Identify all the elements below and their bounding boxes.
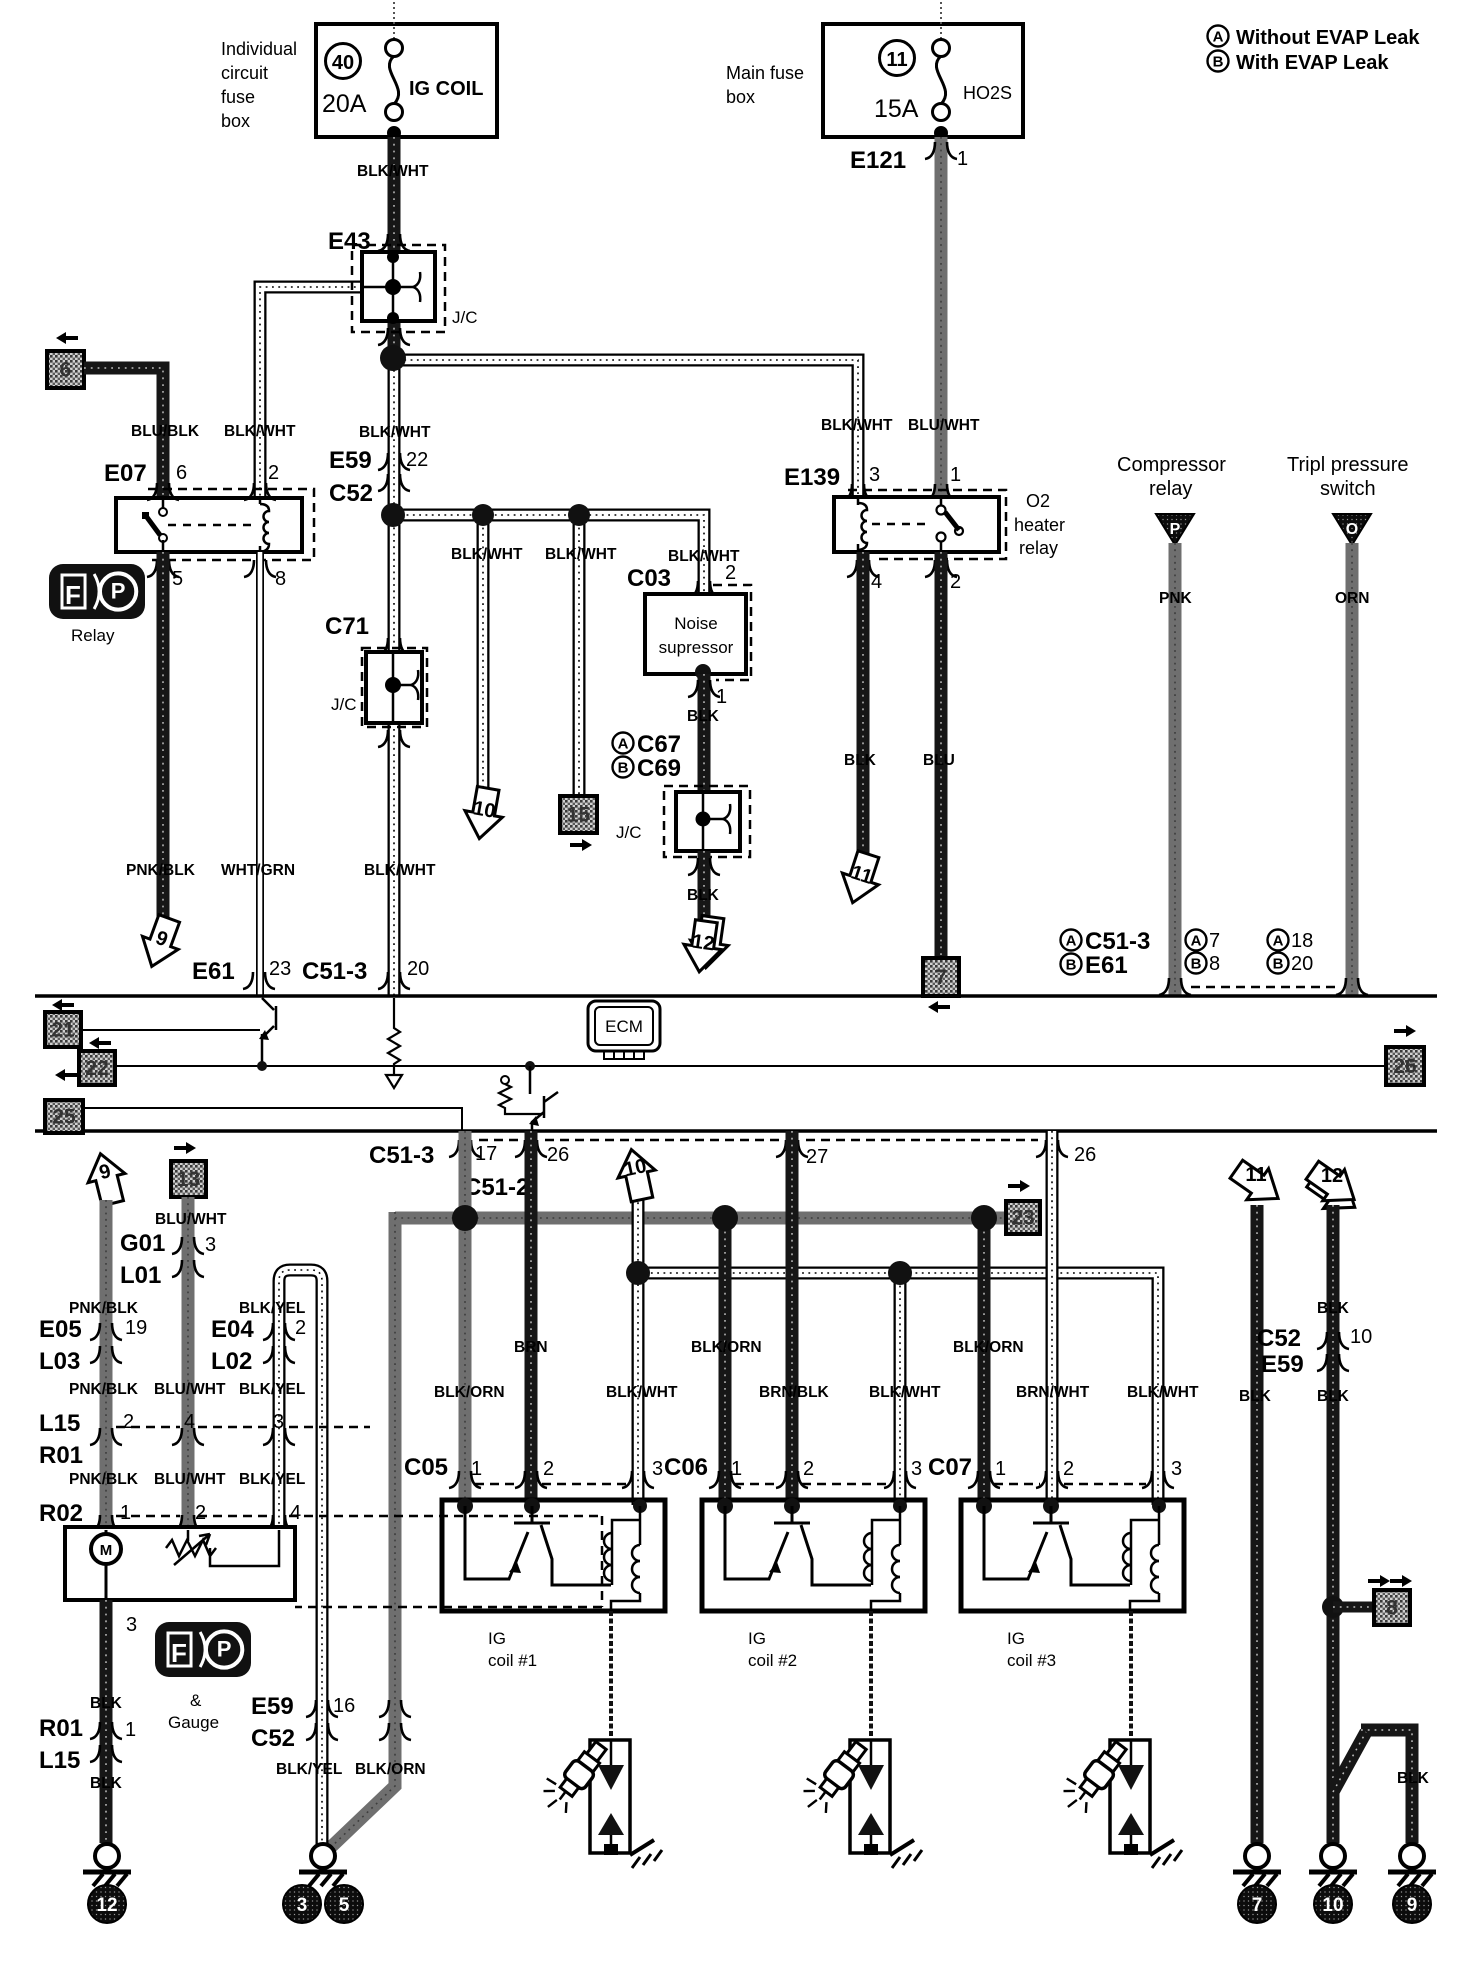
svg-text:1: 1 [716, 686, 727, 708]
wire 25 to C51-3 17 [83, 1108, 462, 1131]
junction C52 bus [381, 503, 405, 527]
svg-text:2: 2 [195, 1502, 206, 1524]
svg-text:BLU/WHT: BLU/WHT [908, 417, 980, 434]
svg-text:BLK/WHT: BLK/WHT [364, 862, 436, 879]
junction [472, 504, 494, 526]
svg-text:BLK/WHT: BLK/WHT [668, 548, 740, 565]
svg-text:F: F [171, 1638, 187, 1668]
page arrow 12 [1298, 1155, 1369, 1223]
svg-text:21: 21 [51, 1019, 75, 1042]
svg-text:9: 9 [1407, 1895, 1418, 1916]
wire BLK to page arrow 12 [698, 851, 711, 925]
svg-text:IG: IG [748, 1629, 766, 1648]
svg-text:BLK/ORN: BLK/ORN [953, 1339, 1024, 1356]
junction [712, 1205, 738, 1231]
wire BLK/WHT E43 to E07 pin2 [260, 287, 362, 498]
svg-text:12: 12 [1321, 1165, 1343, 1187]
svg-text:23: 23 [1011, 1207, 1034, 1230]
page connector 22 [89, 1037, 111, 1049]
svg-text:C06: C06 [664, 1454, 708, 1481]
svg-text:IG: IG [488, 1629, 506, 1648]
wire PNK/BLK E07 pin5 [157, 552, 170, 920]
svg-text:PNK: PNK [1159, 590, 1193, 607]
svg-text:L02: L02 [211, 1348, 252, 1375]
svg-text:26: 26 [1074, 1144, 1096, 1166]
svg-text:L03: L03 [39, 1348, 80, 1375]
svg-text:10: 10 [1322, 1895, 1343, 1916]
svg-text:O2: O2 [1026, 491, 1050, 511]
triple pressure switch [1287, 454, 1409, 545]
svg-text:11: 11 [1245, 1164, 1266, 1186]
transistor in ECM [259, 998, 276, 1066]
svg-text:ECM: ECM [605, 1017, 643, 1036]
wire BLK/WHT junction to E139 pin3 [398, 360, 858, 497]
page connector 6 [56, 332, 78, 344]
svg-text:PNK/BLK: PNK/BLK [69, 1381, 139, 1398]
svg-text:BLK/WHT: BLK/WHT [1127, 1384, 1199, 1401]
label: Main fuse box [726, 63, 804, 107]
connector C67 (A) / C69 (B) [613, 731, 682, 782]
svg-text:BLK/ORN: BLK/ORN [691, 1339, 762, 1356]
svg-text:BLU/WHT: BLU/WHT [154, 1471, 226, 1488]
svg-text:BLK/WHT: BLK/WHT [606, 1384, 678, 1401]
BLK/ORN distribution bus [330, 1212, 1006, 1848]
svg-text:20: 20 [407, 958, 429, 980]
svg-text:C03: C03 [627, 565, 671, 592]
J/C C71 [362, 648, 427, 727]
wire BLK/YEL loop [279, 1270, 322, 1845]
wire BLK to ground 10 [1327, 1205, 1340, 1843]
svg-text:E43: E43 [328, 228, 371, 255]
svg-text:BRN/WHT: BRN/WHT [1016, 1384, 1090, 1401]
svg-text:BLU/WHT: BLU/WHT [155, 1211, 227, 1228]
wire BLK/WHT fuse to E43 [388, 137, 401, 252]
junction [568, 504, 590, 526]
svg-text:BLK/WHT: BLK/WHT [224, 423, 296, 440]
svg-text:BLK/ORN: BLK/ORN [434, 1384, 505, 1401]
svg-text:box: box [221, 111, 250, 131]
svg-text:BLK/YEL: BLK/YEL [276, 1761, 342, 1778]
page connector 25 [55, 1069, 77, 1081]
svg-text:L15: L15 [39, 1410, 80, 1437]
wire 21 to transistor [81, 1029, 260, 1031]
svg-text:F: F [65, 580, 81, 610]
svg-text:A: A [1066, 933, 1077, 950]
svg-text:A: A [618, 736, 629, 753]
svg-text:3: 3 [205, 1234, 216, 1256]
main fuse box [823, 2, 1023, 137]
svg-text:10: 10 [622, 1155, 648, 1181]
wire 22 to 26 [115, 1065, 1386, 1067]
svg-text:BLU/WHT: BLU/WHT [154, 1381, 226, 1398]
junction [971, 1205, 997, 1231]
svg-text:P: P [217, 1637, 232, 1662]
legend B with EVAP leak [1208, 51, 1390, 75]
svg-text:6: 6 [60, 359, 72, 382]
svg-text:A: A [1213, 29, 1224, 46]
page arrow 12 [680, 914, 731, 976]
svg-text:E61: E61 [192, 958, 235, 985]
page connector 7 [923, 958, 959, 996]
svg-text:3: 3 [1171, 1458, 1182, 1480]
svg-text:O: O [1346, 521, 1358, 538]
svg-text:C51-3: C51-3 [302, 958, 367, 985]
svg-text:5: 5 [339, 1895, 350, 1916]
svg-text:PNK/BLK: PNK/BLK [69, 1471, 139, 1488]
svg-text:BLK/YEL: BLK/YEL [239, 1471, 305, 1488]
svg-text:C51-3: C51-3 [1085, 928, 1150, 955]
svg-text:23: 23 [269, 958, 291, 980]
svg-text:B: B [1066, 957, 1077, 974]
svg-text:E05: E05 [39, 1316, 82, 1343]
svg-text:supressor: supressor [659, 638, 734, 657]
svg-text:3: 3 [652, 1458, 663, 1480]
svg-text:relay: relay [1149, 478, 1192, 500]
svg-text:15A: 15A [874, 95, 919, 123]
svg-text:2: 2 [268, 462, 279, 484]
svg-text:A: A [1273, 933, 1284, 950]
wire BLK/ORN C51-3 17 to C05 pin1 [459, 1131, 472, 1505]
wire BLK/WHT to page connector 15 [573, 515, 586, 796]
individual circuit fuse box [316, 2, 497, 137]
IG coil #1 [442, 1500, 665, 1611]
svg-text:coil #1: coil #1 [488, 1651, 537, 1670]
label: Individual circuit fuse box [221, 39, 297, 131]
page arrow 9 [134, 912, 187, 973]
relay E07 [116, 489, 314, 560]
wire BLU E139 pin2 to connector 7 [935, 552, 948, 958]
svg-text:3: 3 [273, 1411, 284, 1433]
wire BRN/BLK 27 to C06 pin2 [786, 1131, 799, 1505]
svg-text:P: P [111, 579, 126, 604]
svg-text:Without EVAP Leak: Without EVAP Leak [1236, 27, 1420, 49]
fuel pump motor unit [65, 1527, 295, 1600]
fuel pump & gauge icon [155, 1622, 251, 1677]
spark plug 1 [590, 1740, 630, 1853]
svg-text:M: M [100, 1542, 113, 1559]
svg-text:BLK: BLK [687, 708, 720, 725]
page arrow 10 [461, 785, 507, 842]
page connector 15 [560, 796, 597, 833]
ECM label box [588, 1001, 660, 1059]
legend A without EVAP leak [1208, 26, 1421, 50]
svg-text:R01: R01 [39, 1442, 83, 1469]
svg-text:Main fuse: Main fuse [726, 63, 804, 83]
wire BLU/WHT 13 to motor [182, 1197, 195, 1530]
svg-text:C51-3: C51-3 [369, 1142, 434, 1169]
svg-text:22: 22 [406, 449, 428, 471]
svg-text:7: 7 [1209, 930, 1220, 952]
svg-text:BLK/YEL: BLK/YEL [239, 1381, 305, 1398]
svg-text:3: 3 [869, 464, 880, 486]
svg-text:B: B [1273, 956, 1284, 973]
spark wire coil2 [869, 1611, 873, 1740]
svg-text:10: 10 [1350, 1326, 1372, 1348]
svg-text:P: P [1170, 521, 1181, 538]
spark plug 2 [850, 1740, 890, 1853]
wire E43 to junction [388, 321, 401, 360]
svg-text:R02: R02 [39, 1500, 83, 1527]
svg-text:BLK/WHT: BLK/WHT [357, 163, 429, 180]
svg-text:4: 4 [290, 1502, 301, 1524]
svg-text:L15: L15 [39, 1747, 80, 1774]
svg-text:2: 2 [295, 1317, 306, 1339]
svg-text:7: 7 [1252, 1895, 1263, 1916]
svg-text:With EVAP Leak: With EVAP Leak [1236, 52, 1389, 74]
svg-text:3: 3 [911, 1458, 922, 1480]
svg-text:BRN: BRN [514, 1339, 548, 1356]
svg-text:box: box [726, 87, 755, 107]
ECM horizontal rail top [35, 994, 1437, 998]
svg-text:22: 22 [85, 1057, 108, 1080]
svg-text:Relay: Relay [71, 626, 115, 645]
wire BLK E139 pin4 to arrow 11 [857, 552, 870, 855]
svg-text:IG: IG [1007, 1629, 1025, 1648]
svg-text:E04: E04 [211, 1316, 254, 1343]
page arrow 10 [613, 1146, 661, 1204]
svg-text:BLU/BLK: BLU/BLK [131, 423, 200, 440]
svg-text:C52: C52 [329, 480, 373, 507]
J/C E43 [352, 245, 445, 332]
svg-text:ORN: ORN [1335, 590, 1369, 607]
svg-text:1: 1 [995, 1458, 1006, 1480]
mark E07 pin6 [147, 483, 157, 500]
svg-text:relay: relay [1019, 538, 1058, 558]
svg-text:40: 40 [332, 52, 354, 74]
svg-text:&: & [190, 1691, 202, 1710]
junction E43 branch [380, 345, 406, 371]
svg-text:BLK/WHT: BLK/WHT [545, 546, 617, 563]
svg-text:HO2S: HO2S [963, 83, 1012, 103]
svg-text:26: 26 [547, 1144, 569, 1166]
svg-text:PNK/BLK: PNK/BLK [126, 862, 196, 879]
svg-text:5: 5 [172, 568, 183, 590]
svg-text:R01: R01 [39, 1715, 83, 1742]
wire WHT/GRN E07 pin8 to E61 23 [256, 552, 264, 996]
transistor 2 in ECM [525, 1061, 535, 1071]
svg-text:6: 6 [176, 462, 187, 484]
wire BRN C51-2 26 to C05 pin2 [525, 1131, 538, 1505]
svg-text:E59: E59 [1261, 1351, 1304, 1378]
wire BLU/WHT E121 to E139 pin1 [935, 137, 948, 497]
resistor in ECM [386, 998, 402, 1088]
svg-text:BLK: BLK [1317, 1388, 1350, 1405]
wire BLK/ORN to C06 pin1 [719, 1218, 732, 1505]
svg-text:B: B [1191, 956, 1202, 973]
wire BLK/WHT arrow10 to C05 pin3 [632, 1196, 645, 1505]
svg-text:3: 3 [297, 1895, 308, 1916]
svg-text:13: 13 [177, 1168, 200, 1191]
svg-text:11: 11 [886, 49, 907, 71]
svg-text:2: 2 [1063, 1458, 1074, 1480]
spark wire coil3 [1129, 1611, 1133, 1740]
page arrow 11 [835, 848, 887, 908]
wire BLK/WHT to page arrow 10 [477, 515, 490, 790]
svg-text:26: 26 [1393, 1055, 1416, 1078]
svg-text:circuit: circuit [221, 63, 268, 83]
svg-text:B: B [618, 760, 629, 777]
svg-text:C52: C52 [251, 1725, 295, 1752]
ground 9 [1400, 1844, 1424, 1868]
connector mark E43 bottom [378, 328, 388, 345]
svg-text:J/C: J/C [452, 308, 478, 327]
ECM horizontal rail bottom [35, 1129, 1437, 1133]
svg-text:BLU: BLU [923, 752, 955, 769]
svg-text:12: 12 [691, 931, 716, 956]
svg-text:10: 10 [471, 797, 497, 823]
svg-text:E61: E61 [1085, 952, 1128, 979]
svg-text:19: 19 [125, 1317, 147, 1339]
page connector 26 [1394, 1025, 1416, 1037]
svg-text:B: B [1213, 54, 1224, 71]
svg-text:BLK/YEL: BLK/YEL [239, 1300, 305, 1317]
wire PNK compressor relay to ECM [1169, 543, 1182, 996]
wire ORN pressure switch to ECM [1346, 543, 1359, 996]
svg-text:3: 3 [126, 1614, 137, 1636]
svg-text:heater: heater [1014, 515, 1065, 535]
wire BLK/WHT to C06 pin3 [894, 1273, 907, 1505]
svg-text:25: 25 [52, 1106, 76, 1129]
svg-text:1: 1 [950, 464, 961, 486]
svg-text:1: 1 [957, 148, 968, 170]
svg-text:1: 1 [120, 1502, 131, 1524]
svg-text:2: 2 [543, 1458, 554, 1480]
J/C C67/C69 [664, 786, 750, 857]
junction [257, 1061, 267, 1071]
svg-text:C71: C71 [325, 613, 369, 640]
mark E07 pin2 [244, 483, 254, 500]
svg-text:C67: C67 [637, 731, 681, 758]
connector mark E43 top [378, 234, 388, 251]
svg-text:8: 8 [275, 568, 286, 590]
svg-text:2: 2 [803, 1458, 814, 1480]
svg-text:E121: E121 [850, 147, 906, 174]
svg-text:G01: G01 [120, 1230, 165, 1257]
svg-text:BLK: BLK [844, 752, 877, 769]
svg-text:16: 16 [333, 1695, 355, 1717]
svg-text:BLK: BLK [1239, 1388, 1272, 1405]
compressor relay [1117, 454, 1226, 545]
svg-text:J/C: J/C [616, 823, 642, 842]
svg-text:2: 2 [725, 562, 736, 584]
svg-text:E59: E59 [329, 447, 372, 474]
svg-text:7: 7 [935, 966, 947, 989]
junction [626, 1261, 650, 1285]
svg-text:BLK/WHT: BLK/WHT [359, 424, 431, 441]
svg-text:BLK/WHT: BLK/WHT [451, 546, 523, 563]
wire BLK motor to ground 12 [100, 1600, 113, 1843]
svg-text:E07: E07 [104, 460, 147, 487]
svg-text:C69: C69 [637, 755, 681, 782]
wire BLU/BLK 6 to E07 pin6 [84, 368, 163, 498]
mark E07 pin5 [147, 560, 157, 577]
junction [452, 1205, 478, 1231]
wire BRN/WHT 26 to C07 pin2 [1046, 1131, 1059, 1505]
svg-text:Tripl pressure: Tripl pressure [1287, 454, 1409, 476]
svg-text:C52: C52 [1257, 1325, 1301, 1352]
connector A C51-3 / B E61 [1061, 928, 1151, 979]
svg-text:IG COIL: IG COIL [409, 78, 483, 100]
ground 10 [1321, 1844, 1345, 1868]
page arrow 11 [1225, 1154, 1289, 1214]
svg-text:A: A [1191, 933, 1202, 950]
svg-text:C51-2: C51-2 [464, 1174, 529, 1201]
svg-text:8: 8 [1386, 1597, 1398, 1620]
svg-text:coil #3: coil #3 [1007, 1651, 1056, 1670]
svg-text:20A: 20A [322, 90, 367, 118]
svg-text:BLK/WHT: BLK/WHT [821, 417, 893, 434]
svg-text:C05: C05 [404, 1454, 448, 1481]
wire BLK/WHT junction to ECM C51-3 20 [388, 351, 401, 996]
pins A7 B8 [1186, 930, 1221, 976]
page connector 13 [174, 1142, 196, 1154]
wire BLK/WHT C52 bus to C03 noise suppressor [394, 515, 704, 594]
ground 7 [1245, 1844, 1269, 1868]
svg-text:BRN/BLK: BRN/BLK [759, 1384, 830, 1401]
IG coil #2 [702, 1500, 925, 1611]
svg-text:Gauge: Gauge [168, 1713, 219, 1732]
wire BLK/ORN to C07 pin1 [978, 1218, 991, 1505]
fuel pump relay icon [49, 564, 145, 619]
svg-text:8: 8 [1209, 953, 1220, 975]
svg-text:BLK: BLK [90, 1695, 123, 1712]
fuse 40 20A IG COIL [322, 40, 483, 141]
page connector 21 [52, 999, 74, 1011]
page arrow 9 [82, 1149, 131, 1208]
svg-text:WHT/GRN: WHT/GRN [221, 862, 295, 879]
svg-text:BLK: BLK [1317, 1300, 1350, 1317]
svg-text:C07: C07 [928, 1454, 972, 1481]
svg-text:15: 15 [567, 804, 591, 827]
BLK/WHT distribution bus [632, 1273, 1158, 1505]
svg-text:18: 18 [1291, 930, 1313, 952]
svg-text:Noise: Noise [674, 614, 717, 633]
svg-text:coil #2: coil #2 [748, 1651, 797, 1670]
wire BLK to ground 7 [1251, 1205, 1264, 1843]
fuse 11 15A HO2S [874, 40, 1012, 141]
ground 12 [95, 1844, 119, 1868]
spark wire coil1 [609, 1611, 613, 1740]
connector E121 [925, 142, 935, 159]
svg-text:switch: switch [1320, 478, 1376, 500]
wire PNK/BLK to motor [100, 1200, 113, 1530]
wire BLK branch to ground 9 [1333, 1730, 1412, 1843]
svg-text:20: 20 [1291, 953, 1313, 975]
svg-text:1: 1 [125, 1719, 136, 1741]
svg-text:Compressor: Compressor [1117, 454, 1226, 476]
junction [888, 1261, 912, 1285]
svg-text:17: 17 [475, 1143, 497, 1165]
svg-text:BLK: BLK [90, 1775, 123, 1792]
mark E07 pin8 [244, 560, 254, 577]
wire BLK C03 pin1 to C67/C69 [698, 674, 711, 792]
page connector 8 [1322, 1596, 1344, 1618]
svg-text:PNK/BLK: PNK/BLK [69, 1300, 139, 1317]
svg-text:BLK/ORN: BLK/ORN [355, 1761, 426, 1778]
svg-text:E139: E139 [784, 464, 840, 491]
IG coil #3 [961, 1500, 1184, 1611]
svg-text:BLK/WHT: BLK/WHT [869, 1384, 941, 1401]
svg-text:27: 27 [806, 1146, 828, 1168]
noise suppressor [645, 594, 746, 674]
svg-text:2: 2 [123, 1411, 134, 1433]
svg-text:12: 12 [96, 1895, 117, 1916]
svg-text:BLK: BLK [687, 887, 720, 904]
ground 3 5 [311, 1844, 335, 1868]
svg-text:L01: L01 [120, 1262, 161, 1289]
svg-text:BLK: BLK [1397, 1770, 1430, 1787]
svg-text:J/C: J/C [331, 695, 357, 714]
